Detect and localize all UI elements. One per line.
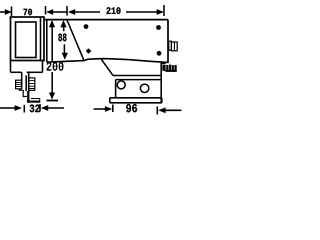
bolt thread tooth 2 — [169, 65, 171, 72]
label 96 — [126, 104, 137, 112]
right clamp screw threads — [29, 81, 35, 89]
reference edge line under 200 arrow — [47, 100, 59, 102]
dim line 88 upper segment — [63, 26, 65, 31]
front block flange line — [40, 17, 42, 61]
right clamp screw — [29, 78, 35, 90]
right side connector barrel — [171, 42, 177, 51]
top dimension 70: left leader line — [0, 11, 7, 13]
front block outer rect — [11, 17, 45, 61]
dimension 96 right tail — [164, 109, 181, 111]
lower plate bottom edge inner — [110, 102, 162, 104]
bracket rail left — [21, 72, 23, 88]
lower plate bottom edge outer — [110, 97, 162, 99]
bottom dimension 96: left leader — [94, 108, 107, 110]
dimension 70 right arrow (outside) — [46, 9, 53, 15]
bracket foot flange top — [31, 99, 40, 101]
dim line 88 lower segment — [63, 44, 65, 54]
bolt base bar — [166, 70, 177, 72]
dimension 32 right tick — [39, 104, 41, 112]
label 70 — [24, 9, 33, 16]
front block inner rect — [16, 22, 37, 58]
main body right edge — [167, 20, 169, 63]
bolt thread tooth 4 — [174, 65, 176, 71]
screw dot top-left — [84, 24, 89, 29]
bolt mount tick — [162, 62, 166, 64]
label 210 — [107, 7, 121, 14]
shoulder bottom right segment — [27, 71, 43, 73]
dimension 32 left arrow — [15, 105, 22, 111]
bracket lower-left step — [19, 89, 27, 97]
bracket foot bottom leg — [27, 101, 40, 103]
dim line 210 left segment — [75, 11, 101, 13]
dimension 96 left tick — [112, 105, 114, 113]
lower plate left edge — [115, 80, 117, 98]
dim line 210 right segment — [126, 11, 158, 13]
bracket rail right — [28, 72, 30, 91]
screw dot bottom-right — [157, 51, 162, 56]
right side connector collar — [169, 41, 172, 50]
left clamp screw threads — [16, 82, 22, 86]
dimension 200 bottom arrow — [49, 93, 55, 100]
lower plate right edge upper — [160, 63, 162, 104]
bottom dimension 32: left leader — [0, 107, 15, 109]
shoulder box left edge — [10, 61, 12, 73]
lower plate bottom left closure — [109, 98, 111, 103]
label 88 — [58, 34, 66, 42]
dimension 32 right arrow — [41, 105, 48, 111]
connector barrel divider — [173, 42, 175, 51]
vertical dimension 200: top arrow — [49, 20, 55, 27]
extension line at diagonal top (210 left) — [66, 6, 68, 16]
dimension 32 left tick — [23, 105, 25, 113]
dimension 32 right tail — [47, 107, 64, 109]
shoulder bottom left segment — [11, 71, 22, 73]
dimension 96 right arrow — [158, 107, 165, 113]
shoulder box right edge — [42, 61, 44, 73]
lower plate top edge inner — [116, 79, 162, 81]
label 200 — [47, 62, 64, 71]
dimension 88 bottom arrow — [62, 53, 68, 60]
bolt head — [162, 65, 165, 71]
screw dot bottom-left (diamond) — [86, 48, 92, 54]
bracket rail middle — [25, 75, 27, 91]
main body top edge — [44, 19, 168, 21]
mounting hole left — [117, 81, 125, 89]
body diagonal crease — [67, 20, 84, 61]
dim line 200 upper segment — [51, 26, 53, 61]
vertical dimension 88: top arrow — [60, 20, 66, 27]
screw dot top-right — [156, 25, 161, 30]
dim line segment between 70 and 210 — [52, 11, 67, 13]
dimension 96 left arrow — [105, 106, 112, 112]
extension line right (210 right) — [163, 5, 165, 16]
extension line right of block — [45, 6, 47, 15]
bolt thread tooth 3 — [172, 65, 174, 71]
main body left edge — [46, 20, 48, 63]
bracket foot vertical leg — [27, 91, 29, 102]
label 32 — [30, 105, 40, 113]
bolt thread tooth 1 — [166, 65, 168, 71]
diagonal to lower plate — [101, 59, 113, 75]
dimension 210 right arrow — [157, 9, 164, 15]
main body bottom edge — [47, 59, 168, 63]
lower plate top edge outer — [113, 75, 161, 77]
mounting hole right — [140, 84, 148, 92]
extension line left of block — [11, 7, 13, 17]
left clamp screw — [16, 80, 22, 89]
lower plate bottom right closure — [161, 98, 163, 103]
top dimension 70: left arrow — [5, 9, 12, 15]
dimension 210 left arrow — [68, 9, 75, 15]
dimension 96 right tick — [156, 107, 158, 115]
dim line 200 lower segment — [51, 72, 53, 94]
